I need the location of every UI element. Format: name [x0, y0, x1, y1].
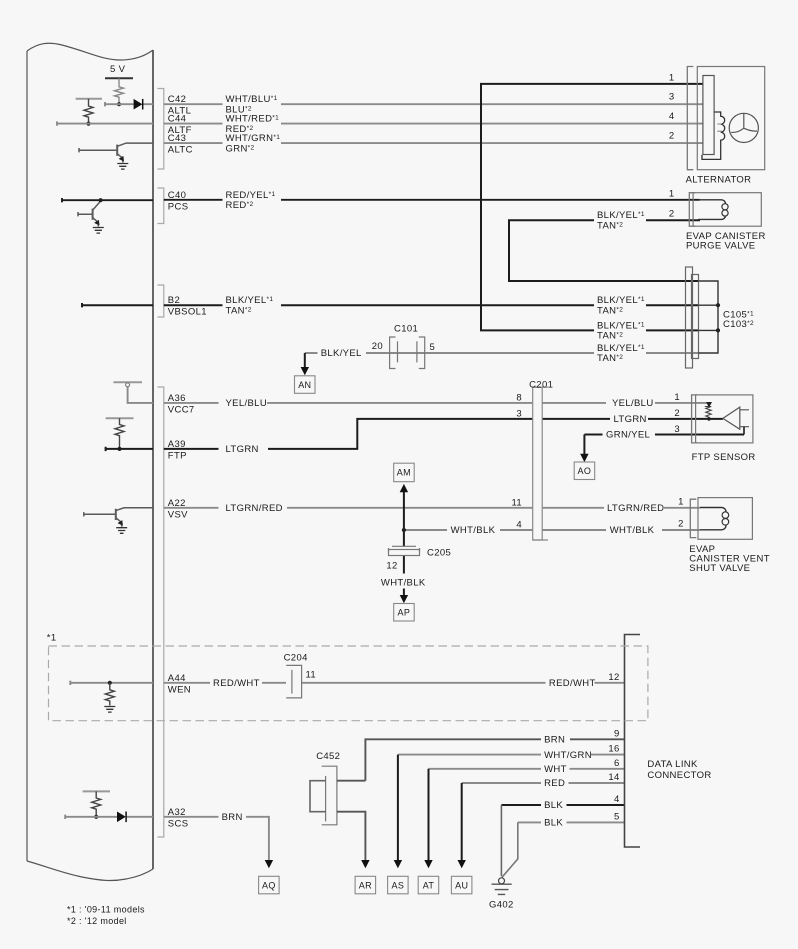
wire WHT/RED (C44 to alternator pin 4) [226, 114, 703, 135]
pin A32/SCS [164, 807, 219, 830]
svg-text:BLK: BLK [544, 818, 563, 829]
node bus junctions [716, 303, 720, 307]
C201 pin numbers [511, 392, 522, 530]
wire WHT/GRN (C43 to alternator pin 2) [226, 133, 703, 154]
T-bar (A32 rail) [83, 790, 110, 792]
pin A44/WEN [164, 673, 210, 696]
svg-text:WHT: WHT [544, 764, 567, 775]
svg-text:16: 16 [608, 744, 619, 755]
svg-text:3: 3 [516, 408, 522, 419]
vent valve solenoid coil [700, 508, 726, 512]
svg-text:5: 5 [614, 811, 620, 822]
wire WHT/BLU (C42 to alternator pin 3) [226, 94, 703, 115]
svg-text:*2 : '12 model: *2 : '12 model [67, 916, 127, 926]
svg-text:1: 1 [674, 392, 680, 403]
svg-text:WHT/BLK: WHT/BLK [610, 525, 655, 536]
svg-text:9: 9 [614, 728, 620, 739]
svg-text:ALTERNATOR: ALTERNATOR [686, 175, 752, 186]
svg-text:BLK/YEL: BLK/YEL [321, 348, 362, 359]
transistor Q2 (PCS driver) [78, 201, 101, 227]
alternator internal connector bar [703, 76, 714, 155]
T-bar (A36 VCC rail) [113, 381, 142, 383]
svg-text:BLK: BLK [544, 800, 563, 811]
connector C205 [389, 546, 420, 555]
svg-text:C205: C205 [427, 548, 451, 559]
svg-text:4: 4 [614, 794, 620, 805]
C105 common bus [699, 281, 719, 353]
connector C201 [533, 387, 543, 540]
FTP sensor bracket [692, 395, 698, 443]
svg-text:RED/WHT: RED/WHT [549, 678, 596, 689]
ground G402 [499, 878, 505, 884]
wire WHT (DLC pin 6 to AT) [424, 758, 624, 869]
wire purge valve pin2 BLK/YEL loop to C105 [509, 210, 700, 281]
wire C452 jumper loop [310, 781, 326, 812]
pin A36/VCC7 [164, 393, 219, 416]
pin C42/ALTL [164, 94, 223, 117]
svg-text:VCC7: VCC7 [168, 404, 195, 415]
vent valve bracket [690, 499, 696, 537]
svg-text:AS: AS [392, 880, 405, 890]
svg-text:LTGRN: LTGRN [614, 414, 647, 425]
svg-text:AT: AT [423, 880, 435, 890]
svg-text:1: 1 [669, 188, 675, 199]
svg-text:4: 4 [516, 520, 522, 531]
wire B2 internal stub [82, 303, 153, 307]
svg-text:14: 14 [608, 772, 619, 783]
data link connector bar [625, 635, 641, 848]
wire C40 internal stub [62, 198, 153, 202]
svg-text:C201: C201 [529, 379, 553, 390]
purge valve solenoid coil [698, 200, 726, 204]
connector C105/C103 [686, 267, 693, 368]
svg-text:8: 8 [516, 392, 522, 403]
connector C204 [286, 665, 301, 698]
svg-text:FTP SENSOR: FTP SENSOR [692, 452, 756, 463]
svg-text:LTGRN/RED: LTGRN/RED [226, 503, 283, 514]
pin A39/FTP [164, 439, 219, 462]
svg-text:CONNECTOR: CONNECTOR [647, 770, 711, 781]
svg-text:SHUT VALVE: SHUT VALVE [689, 563, 750, 574]
svg-text:A44: A44 [168, 673, 186, 684]
node junction A44 [108, 681, 112, 685]
ECM pin brackets [158, 89, 164, 838]
wire BRN (A32 to AQ) [222, 812, 274, 868]
ECM/PCM body outline [27, 43, 153, 880]
wire WHT/GRN (DLC pin 16 to AS) [394, 744, 625, 869]
ground (Q3 emitter) [116, 528, 127, 534]
pin C44/ALTF [164, 114, 223, 137]
svg-text:SCS: SCS [168, 818, 189, 829]
svg-text:GRN/YEL: GRN/YEL [606, 430, 650, 441]
svg-text:2: 2 [669, 131, 675, 142]
ground (Q2 emitter) [93, 228, 104, 234]
pin C43/ALTC [164, 133, 223, 156]
wire A36 internal stub [128, 387, 153, 403]
svg-text:A22: A22 [168, 498, 186, 509]
svg-text:BRN: BRN [544, 735, 565, 746]
wire C452 to AR (bottom pin) [337, 812, 366, 861]
wire C42 internal stub [105, 102, 153, 106]
diode D1 on C42 row [134, 99, 143, 110]
transistor Q1 (ALTC driver) [79, 143, 153, 162]
resistor R (A39 pull-up) [115, 418, 124, 449]
5V rail T-bar [105, 77, 133, 79]
diode D2 on A32 row [117, 812, 126, 823]
T-bar (C44 pull-up rail) [76, 98, 102, 100]
pin A22/VSV [164, 498, 219, 521]
svg-text:C204: C204 [284, 652, 308, 663]
vent valve body [698, 498, 752, 540]
svg-text:AO: AO [578, 466, 592, 476]
resistor R (A44 to ground) [105, 683, 114, 706]
wire LTGRN (A39 via C201 pin3 to FTP sensor pin 2) [226, 414, 723, 455]
node AR reference box [355, 876, 376, 894]
svg-text:4: 4 [669, 111, 675, 122]
svg-text:*1: *1 [47, 633, 57, 644]
purge valve body [693, 193, 761, 227]
svg-text:AQ: AQ [262, 880, 276, 890]
wire A39 internal stub [106, 447, 153, 451]
wire WHT/BLK (C201 pin4, vent valve pin 2, AM/AP tap) [404, 525, 700, 536]
svg-text:C40: C40 [168, 190, 186, 201]
wire A32 internal stub [65, 815, 153, 819]
wire YEL/BLU (A36 to FTP sensor pin 1) [226, 398, 710, 409]
svg-text:12: 12 [608, 672, 619, 683]
svg-text:LTGRN: LTGRN [226, 444, 259, 455]
svg-text:LTGRN/RED: LTGRN/RED [607, 503, 664, 514]
node junction A39 [117, 447, 121, 451]
wire C452 to BRN row (top pin) [337, 780, 366, 782]
svg-text:C101: C101 [394, 323, 418, 334]
node AQ reference box [259, 876, 280, 894]
vent valve pin numbers [678, 496, 684, 529]
svg-text:AU: AU [455, 880, 468, 890]
wire C44 internal stub [57, 121, 153, 125]
svg-text:WHT/BLK: WHT/BLK [451, 525, 496, 536]
alternator pin numbers [669, 72, 675, 141]
node AP reference box [394, 604, 415, 622]
FTP internal comparator triangle [723, 407, 749, 429]
wire RED/WHT (A44 via C204 to DLC pin 12) [213, 672, 625, 689]
wire BRN (C452 to DLC pin 9) [365, 728, 624, 780]
alternator body [697, 67, 764, 170]
FTP sensor body [696, 395, 753, 443]
svg-text:PURGE VALVE: PURGE VALVE [686, 240, 756, 251]
wire BLK/YEL C101 to C105 and to AN [301, 341, 699, 375]
wire BLK (DLC pin 5 to G402) [502, 811, 625, 877]
node AS reference box [388, 876, 409, 894]
svg-text:AN: AN [298, 380, 311, 390]
svg-text:11: 11 [306, 669, 317, 680]
resistor R (C44 pull-up) [84, 99, 93, 124]
connector C101 [390, 337, 425, 369]
svg-text:WHT/GRN: WHT/GRN [544, 750, 592, 761]
svg-text:AP: AP [398, 608, 411, 618]
svg-text:AR: AR [359, 880, 372, 890]
purge valve bracket [689, 193, 695, 227]
resistor R (A32 pull-up) [92, 791, 101, 816]
svg-text:6: 6 [614, 758, 620, 769]
svg-text:RED/WHT: RED/WHT [213, 678, 260, 689]
ground (A44 resistor) [104, 707, 115, 713]
svg-text:3: 3 [669, 92, 675, 103]
wire alternator pin1 BLK/YEL loop down to C105 [481, 84, 703, 342]
FTP internal sense resistor with arrow [705, 407, 711, 419]
node junction C44 [86, 122, 90, 126]
svg-text:20: 20 [372, 341, 383, 352]
svg-text:AM: AM [397, 468, 411, 478]
alternator connector bracket [687, 67, 693, 170]
wire RED/YEL (C40 to purge valve pin 1) [226, 190, 701, 211]
node AN reference box [295, 376, 316, 394]
svg-text:12: 12 [386, 561, 397, 572]
svg-text:C42: C42 [168, 94, 186, 105]
svg-text:WHT/BLK: WHT/BLK [381, 578, 426, 589]
svg-text:A32: A32 [168, 807, 186, 818]
node junction C42 pull-up [117, 102, 121, 106]
wire RED (DLC pin 14 to AU) [458, 772, 625, 868]
node AU reference box [451, 876, 472, 894]
ground (Q1 emitter) [117, 164, 128, 170]
svg-text:YEL/BLU: YEL/BLU [612, 398, 654, 409]
pin C40/PCS [164, 190, 223, 213]
svg-text:2: 2 [669, 209, 675, 220]
wire LTGRN/RED (A22 via C201 pin11 to vent valve pin 1) [226, 503, 701, 514]
wire A44 internal stub [70, 681, 153, 685]
svg-text:11: 11 [511, 497, 522, 508]
node AO reference box [574, 462, 595, 480]
svg-text:VBSOL1: VBSOL1 [168, 307, 207, 318]
transistor Q3 (VSV driver) [84, 508, 153, 527]
svg-text:C44: C44 [168, 114, 186, 125]
svg-text:YEL/BLU: YEL/BLU [226, 398, 268, 409]
alternator generator circle symbol [729, 113, 758, 142]
node AT reference box [418, 876, 439, 894]
svg-text:ALTC: ALTC [168, 145, 193, 156]
svg-text:3: 3 [674, 424, 680, 435]
alternator field coil [702, 112, 725, 159]
svg-text:DATA LINK: DATA LINK [647, 759, 698, 770]
svg-text:2: 2 [678, 518, 684, 529]
svg-text:1: 1 [669, 72, 675, 83]
svg-text:C43: C43 [168, 133, 186, 144]
node junction A32 [94, 815, 98, 819]
svg-text:C452: C452 [316, 751, 340, 762]
connector C452 (with shorting jumper) [322, 766, 337, 825]
svg-text:*1 : '09-11 models: *1 : '09-11 models [67, 905, 145, 915]
svg-text:FTP: FTP [168, 450, 187, 461]
wire BLK/YEL (B2 to C105) [226, 295, 699, 316]
svg-text:B2: B2 [168, 295, 180, 306]
svg-text:G402: G402 [489, 900, 514, 911]
svg-text:1: 1 [678, 496, 684, 507]
svg-text:PCS: PCS [168, 201, 189, 212]
wire BLK (DLC pin 4 to G402) [501, 794, 624, 876]
svg-text:RED: RED [544, 778, 565, 789]
FTP sensor pin numbers [674, 392, 680, 435]
svg-text:WEN: WEN [168, 684, 191, 695]
svg-text:A36: A36 [168, 393, 186, 404]
wire vertical AM to AP (WHT/BLK) [381, 484, 426, 603]
svg-text:VSV: VSV [168, 509, 188, 520]
node AM reference box [394, 463, 415, 482]
resistor R (5V pull-up to C42) [115, 78, 124, 104]
pin B2/VBSOL1 [164, 295, 223, 318]
svg-text:A39: A39 [168, 439, 186, 450]
svg-text:2: 2 [674, 408, 680, 419]
svg-text:5: 5 [430, 342, 436, 353]
wire GRN/YEL (FTP sensor pin 3 to AO) [580, 430, 744, 462]
svg-text:BRN: BRN [222, 812, 243, 823]
svg-text:5 V: 5 V [110, 64, 126, 75]
T-bar (A39 pull-up rail) [106, 417, 134, 419]
purge valve pin numbers [669, 188, 675, 219]
dashed option box *1 [49, 646, 648, 721]
